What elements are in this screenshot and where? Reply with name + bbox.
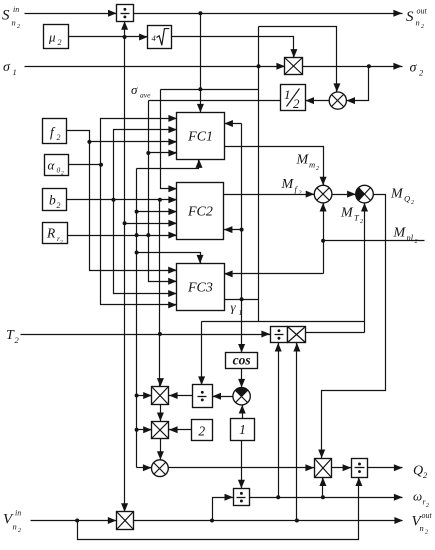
svg-text:S: S <box>406 9 414 25</box>
wire T bus top feed into FC1 bottom <box>137 159 203 168</box>
wire V_n2_in input line <box>31 517 117 524</box>
wire mu bus down to multiplier XV top <box>121 37 128 512</box>
svg-text:σ: σ <box>3 60 11 75</box>
wire combo multiplier output to M_T2 vertical <box>306 332 365 334</box>
svg-text:2: 2 <box>299 191 302 197</box>
label M_Q2 <box>390 187 414 207</box>
svg-text:Q: Q <box>413 464 423 479</box>
svg-text:M: M <box>340 206 354 221</box>
svg-text:1: 1 <box>13 67 17 77</box>
label V_n2_in <box>3 509 21 535</box>
node T bus to XM2 left <box>135 428 139 432</box>
wire V branch into divider U7 left <box>213 494 234 521</box>
wire gamma top into FC1 right input <box>224 120 241 127</box>
wire FC1 right output M_m2 into circle CM1 top <box>225 147 327 186</box>
node T bus to FC2 input 3 <box>135 210 139 214</box>
summer circle XSIG <box>329 92 346 109</box>
svg-text:α: α <box>48 158 56 173</box>
wire box 2 into XM2 right <box>169 426 192 433</box>
label M_m2 <box>296 153 320 173</box>
wire M_nl2 input line <box>324 240 425 242</box>
svg-text:out: out <box>422 511 433 520</box>
wire FC3 top feed <box>137 253 204 264</box>
wire S_n2_in input line <box>25 10 117 17</box>
node T bus to XM1 left <box>135 394 139 398</box>
wire bottom V line up into divider U6 bottom <box>78 477 363 539</box>
node f bus to FC1 input 3 <box>87 140 91 144</box>
node B bus to FC1 input 4 <box>146 151 150 155</box>
summer circle CBOT <box>152 460 169 477</box>
node gamma on FC3 output line <box>240 297 244 301</box>
label omega_r2 <box>413 489 429 510</box>
wire stub into XM1 left <box>137 392 152 399</box>
svg-text:in: in <box>13 5 19 14</box>
block b_2 <box>43 189 67 211</box>
wire b_2 output to FC2 input 2 <box>67 196 178 203</box>
wire FC2 input 3 <box>137 208 178 215</box>
wire circle CBOT output to multiplier XQ <box>169 464 315 471</box>
wire FC2 right input <box>224 226 242 233</box>
wire FC3 right output to bus <box>225 299 259 301</box>
multiplier XQ <box>315 459 332 478</box>
node sigma_1 branch to bus <box>257 64 261 68</box>
svg-text:2: 2 <box>198 424 205 439</box>
wire omega up into XQ bottom <box>319 477 326 497</box>
node R line on T bus <box>135 233 139 237</box>
summer circle CM1 <box>314 185 332 203</box>
node b_2 branch at bb bus <box>112 198 116 202</box>
wire mu_2 output to fourth-root block <box>69 34 148 41</box>
cos block <box>226 353 258 369</box>
wire sigma_ave line <box>161 89 259 91</box>
svg-text:ave: ave <box>140 91 151 100</box>
wire XM2 output down into circle CBOT top <box>157 439 164 460</box>
svg-text:2: 2 <box>58 38 62 47</box>
svg-text:M: M <box>390 187 404 202</box>
svg-text:n: n <box>12 18 16 28</box>
wire box 1 down into divider U7 top <box>238 441 245 489</box>
label T_2 <box>6 328 20 345</box>
fuzzy controller FC1 <box>177 113 225 160</box>
svg-text:2: 2 <box>425 530 428 536</box>
wire FC2 right output M_f2 into circle CM1 left <box>224 191 315 198</box>
label S_n2_out <box>406 7 428 31</box>
wire divider U1 output to S_n2_out <box>134 10 403 17</box>
svg-text:2: 2 <box>415 239 418 245</box>
wire XM1 output down into XM2 top <box>157 405 164 422</box>
svg-text:2: 2 <box>421 24 424 30</box>
label sigma_ave <box>131 82 151 100</box>
svg-text:FC1: FC1 <box>187 130 213 145</box>
wire drop into divider U5 top <box>198 322 205 386</box>
wire T_2 input line to combo divider <box>21 331 271 338</box>
wire bb bus down to FC3 input 3 <box>114 200 177 298</box>
fourth-root block U2 <box>148 26 172 49</box>
svg-text:M: M <box>393 226 407 241</box>
wire R_r2 output to FC2 input 5 <box>68 232 178 239</box>
wire b drop down to multiplier XM1 top <box>157 200 164 387</box>
wire sigma1 long bus down <box>258 27 260 322</box>
label M_f2 <box>281 177 302 197</box>
svg-text:b: b <box>49 193 56 208</box>
wire B bus vertical down to FC3 input 2 <box>149 101 177 285</box>
svg-text:2: 2 <box>60 240 63 246</box>
wire alpha_02 output to alpha bus <box>69 164 101 166</box>
label Q_2 <box>413 464 428 481</box>
svg-text:n: n <box>416 18 420 28</box>
svg-text:1: 1 <box>284 87 291 102</box>
multiplier XV <box>117 512 134 530</box>
node omega to XQ bottom <box>321 495 325 499</box>
svg-text:ω: ω <box>413 489 422 504</box>
summer circle CCOS top-filled <box>233 388 250 405</box>
wire box 1 up into circle CCOS bottom <box>239 405 246 419</box>
multiplier XM1 <box>152 387 169 405</box>
svg-text:2: 2 <box>17 24 20 30</box>
wire FC2 input 4 <box>125 220 178 227</box>
label V_n2_out <box>412 511 433 536</box>
wire V feed up into combo multiplier bottom <box>293 343 300 521</box>
label M_nl2 <box>393 226 418 246</box>
wire FC1 input 3 <box>90 138 178 145</box>
node b drop on T_2 line <box>158 332 162 336</box>
svg-text:FC2: FC2 <box>187 205 213 220</box>
wire XV output to V_n2_out <box>134 517 404 524</box>
label M_T2 <box>340 206 363 226</box>
node T bus to FC3 top feed <box>135 251 139 255</box>
wire multiplier XS output to sigma_2 <box>303 63 403 70</box>
wire bb bus up to FC1 input 2 <box>114 126 178 199</box>
block f_2 <box>43 119 67 144</box>
wire y322 horizontal <box>202 321 365 323</box>
node V branch to combo <box>295 519 299 523</box>
node omega branch <box>276 495 280 499</box>
divider U5 <box>193 385 213 408</box>
divider U7 <box>234 489 250 506</box>
wire mu bus up into divider U1 bottom <box>121 21 128 36</box>
wire M_nl vertical into CM1 bottom and FC3 right <box>320 203 327 274</box>
node S output branch <box>198 11 202 15</box>
node gamma to FC2 right input <box>240 228 244 232</box>
label gamma_1 <box>231 300 243 318</box>
node M_nl junction <box>321 239 325 243</box>
block mu_2 <box>44 25 69 49</box>
node alpha junction <box>99 163 103 167</box>
svg-text:n: n <box>13 522 17 532</box>
wire divider U6 output Q_2 <box>368 464 403 471</box>
label S_n2_in <box>2 5 20 30</box>
svg-text:R: R <box>46 226 56 241</box>
svg-text:2: 2 <box>293 96 300 111</box>
svg-text:M: M <box>296 153 310 168</box>
wire circle XSIG output to half block <box>305 97 329 104</box>
wire f_2 output down the f bus <box>67 131 177 274</box>
wire alpha bus down to FC3 input 4 <box>101 165 177 309</box>
wire FC1 input 4 <box>149 150 178 157</box>
wire sigma_1 input line to multiplier XS <box>25 63 286 70</box>
wire circle CM2 output M_Q2 down to Q chain <box>318 195 385 459</box>
combo multiplier <box>288 327 306 343</box>
wire T bus bottom into circle CBOT left <box>137 464 152 471</box>
wire gamma vertical from FC1 right side down to cos <box>238 124 245 353</box>
wire half block output to B bus <box>149 100 281 102</box>
node mu_2 branch <box>123 35 127 39</box>
block R_r2 <box>43 223 68 246</box>
wire FC3 right input <box>224 270 324 277</box>
wire stub into XM2 left <box>137 426 152 433</box>
wire sigma_2 feedback into circle XSIG right <box>346 67 368 105</box>
wire omega feed up into combo divider bottom <box>275 343 282 498</box>
half gain block <box>281 85 306 112</box>
block 1 <box>231 419 255 441</box>
block 2 <box>192 420 213 441</box>
wire cos output into circle CCOS top <box>238 369 245 388</box>
multiplier XM2 <box>152 422 169 439</box>
svg-text:2: 2 <box>426 503 429 509</box>
svg-text:1: 1 <box>239 308 243 317</box>
svg-text:S: S <box>2 8 10 24</box>
label sigma_1 <box>3 60 17 77</box>
wire circle CCOS output to divider U5 <box>212 393 232 400</box>
svg-text:2: 2 <box>411 200 414 206</box>
wire S branch down into FC1 top <box>197 14 204 113</box>
node sigma_ave junction on FC1 feed <box>198 87 202 91</box>
multiplier XS <box>285 58 303 75</box>
divider U1 <box>117 5 134 22</box>
wire sigma_ave drop to FC2 input 1 <box>161 90 178 193</box>
svg-text:Q: Q <box>404 194 410 204</box>
node V_n2_in branch <box>75 519 79 523</box>
svg-text:2: 2 <box>316 166 319 172</box>
svg-text:2: 2 <box>360 219 363 225</box>
svg-text:in: in <box>15 509 21 518</box>
wire sigma1 bus top loop into circle XSIG top <box>259 27 341 93</box>
svg-text:M: M <box>281 177 295 192</box>
wire XQ output into divider U6 <box>332 464 352 471</box>
svg-text:2: 2 <box>57 201 61 210</box>
svg-text:2: 2 <box>57 133 61 142</box>
svg-text:γ: γ <box>231 300 237 315</box>
svg-text:2: 2 <box>61 171 64 177</box>
wire T bus vertical <box>136 169 138 468</box>
fuzzy controller FC3 <box>177 264 225 311</box>
svg-text:cos: cos <box>233 353 251 368</box>
summer circle CM2 left-filled <box>356 185 374 203</box>
svg-text:out: out <box>417 7 428 16</box>
svg-text:σ: σ <box>410 61 418 76</box>
wire divider U5 output into XM1 right <box>169 392 193 399</box>
block alpha_02 <box>45 155 69 177</box>
wire fourth-root output to multiplier XS top <box>172 37 298 58</box>
svg-text:0: 0 <box>57 166 61 175</box>
wire circle CM1 output into circle CM2 <box>332 191 356 198</box>
wire alpha bus up to FC1 input 1 <box>101 115 178 165</box>
node V out branch to divider U7 <box>210 519 214 523</box>
fuzzy controller FC2 <box>177 183 224 240</box>
wire divider U7 output omega line <box>250 494 403 501</box>
svg-text:FC3: FC3 <box>187 281 213 296</box>
node B bus on R_r2 line <box>146 233 150 237</box>
node sigma_2 feedback branch <box>367 64 371 68</box>
svg-text:n: n <box>420 523 424 533</box>
svg-text:μ: μ <box>48 30 56 45</box>
node mu bus to FC2 input 4 <box>123 221 127 225</box>
combo divider <box>271 327 288 343</box>
svg-text:2: 2 <box>18 528 21 534</box>
svg-text:m: m <box>309 160 315 170</box>
svg-text:nl: nl <box>407 233 414 243</box>
label sigma_2 <box>410 61 425 78</box>
svg-text:σ: σ <box>131 82 138 97</box>
node b_2 branch to multiplier chain <box>158 198 162 202</box>
svg-text:1: 1 <box>239 422 246 437</box>
wire M_T2 vertical into circle CM2 bottom <box>361 203 368 333</box>
divider U6 <box>352 459 368 478</box>
